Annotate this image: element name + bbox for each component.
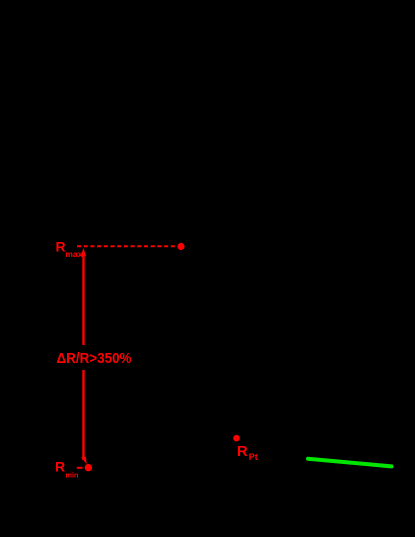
label Rmax bbox=[56, 238, 83, 259]
dashed leader line Rmax bbox=[77, 245, 176, 247]
svg-text:Pt: Pt bbox=[249, 452, 258, 462]
label Rmin bbox=[55, 459, 78, 480]
marker dot Rmax bbox=[177, 243, 184, 250]
arrowhead up bbox=[81, 248, 86, 256]
svg-text:max: max bbox=[65, 249, 83, 259]
svg-text:ΔR/R>350%: ΔR/R>350% bbox=[57, 350, 132, 367]
svg-text:R: R bbox=[55, 459, 65, 475]
svg-text:R: R bbox=[237, 443, 248, 460]
svg-text:R: R bbox=[56, 238, 66, 254]
label RPt bbox=[237, 443, 258, 462]
arrowhead down bbox=[81, 457, 87, 464]
marker dot RPt bbox=[233, 435, 240, 442]
arrow lower segment bbox=[82, 370, 84, 460]
green line segment bbox=[308, 459, 392, 467]
svg-text:min: min bbox=[66, 470, 79, 479]
arrow upper segment bbox=[82, 254, 84, 345]
dash leader Rmin bbox=[77, 467, 83, 469]
marker dot Rmin bbox=[85, 464, 92, 471]
